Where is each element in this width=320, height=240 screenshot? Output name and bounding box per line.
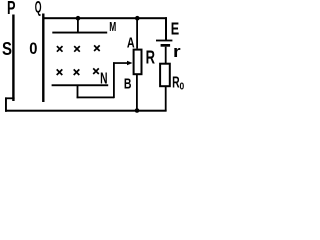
wire hook right vertical up to slider [113,62,115,98]
wire hook bottom horizontal [77,97,115,99]
wire bottom-left step vertical [5,97,7,111]
svg-text:M: M [109,19,116,34]
svg-text:B: B [124,77,132,93]
rail P [12,15,14,102]
rail Q [42,14,44,103]
svg-text:r: r [173,42,181,61]
node junction dot 2 [135,16,140,21]
wire bottom-left step horizontal [5,97,15,99]
battery E long plate [156,40,172,42]
node junction dot 1 [76,16,81,21]
field cross row1 b [74,46,80,52]
resistor R0 box [160,64,170,86]
wire battery branch top corner vertical [165,17,167,40]
wire R top vertical [136,18,138,49]
svg-text:A: A [127,35,135,51]
field cross row2 a [57,69,63,75]
node junction dot 3 [135,108,140,113]
svg-text:Q: Q [35,0,42,16]
svg-text:N: N [100,71,107,88]
rail N [52,84,109,86]
wire hook left vertical from rail N [77,86,79,98]
wire M branch vertical [77,18,79,33]
wire battery to R0 vertical [165,47,167,63]
field cross row2 c [93,68,99,74]
wire R0 bottom vertical [165,86,167,111]
rail M [52,32,107,34]
svg-text:0: 0 [29,39,37,58]
svg-text:S: S [2,39,12,59]
wire slider arrow line [113,62,128,64]
battery E short plate [161,44,171,47]
field cross row1 a [57,46,63,52]
field cross row2 b [74,69,80,75]
rheostat R box [134,50,142,75]
wire bottom [5,110,167,112]
field cross row1 c [94,45,100,51]
svg-text:R: R [146,48,155,68]
svg-text:0: 0 [180,81,185,92]
wire top [43,17,167,19]
wire R bottom vertical [136,75,138,111]
slider arrowhead [127,61,133,66]
svg-text:E: E [171,18,179,38]
